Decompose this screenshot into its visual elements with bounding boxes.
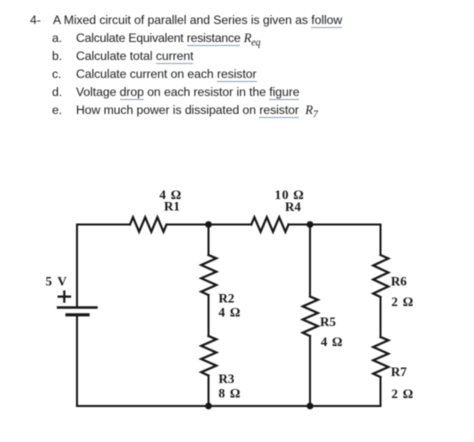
svg-text:R5: R5 <box>320 314 336 329</box>
wire right middle <box>380 297 382 337</box>
wire right lower <box>380 377 382 406</box>
battery plus sign <box>59 292 70 302</box>
resistor R2 <box>201 255 216 295</box>
battery negative plate <box>67 313 88 316</box>
svg-text:R2: R2 <box>219 291 235 306</box>
wire branch2 upper <box>309 225 311 297</box>
svg-text:R6: R6 <box>391 274 407 289</box>
item e <box>52 103 62 117</box>
resistor R4 <box>251 217 288 232</box>
wire branch1 middle <box>208 295 210 336</box>
resistor R6 <box>373 255 388 297</box>
resistor R1 <box>130 217 167 232</box>
svg-text:2 Ω: 2 Ω <box>391 294 414 309</box>
resistor R3 <box>201 336 216 376</box>
item a <box>52 31 62 45</box>
battery positive plate <box>58 306 97 308</box>
node bottom branch1 <box>205 403 212 410</box>
svg-text:8 Ω: 8 Ω <box>219 386 242 401</box>
wire branch2 lower <box>309 336 311 406</box>
wire left upper <box>76 225 78 308</box>
wire bottom <box>77 405 381 407</box>
svg-text:R7: R7 <box>391 364 407 379</box>
wire top middle <box>167 224 252 226</box>
node top branch1 <box>205 221 212 228</box>
node top branch2 <box>307 221 314 228</box>
wire top right <box>289 224 381 226</box>
svg-text:R1: R1 <box>164 199 180 214</box>
svg-text:R3: R3 <box>219 371 235 386</box>
resistor R7 <box>373 337 388 377</box>
item c <box>52 67 61 81</box>
item b <box>52 49 62 63</box>
question text line 1 <box>30 13 41 27</box>
wire branch1 lower <box>208 376 210 407</box>
svg-text:4 Ω: 4 Ω <box>321 334 344 349</box>
wire left lower <box>76 315 78 406</box>
svg-text:2 Ω: 2 Ω <box>391 386 414 401</box>
wire right upper <box>380 225 382 256</box>
svg-text:R4: R4 <box>285 199 301 214</box>
svg-text:4 Ω: 4 Ω <box>219 305 242 320</box>
wire top-left horizontal <box>77 224 130 226</box>
svg-text:5 V: 5 V <box>46 273 69 288</box>
resistor R5 <box>303 297 318 337</box>
item d <box>52 85 62 99</box>
wire branch1 upper <box>208 225 210 256</box>
node bottom branch2 <box>307 403 314 410</box>
